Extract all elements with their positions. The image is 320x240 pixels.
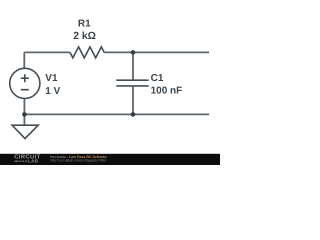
svg-text:http://circuitlab.com/c/dqsgds: http://circuitlab.com/c/dqsgdsx74bn <box>50 158 106 162</box>
svg-text:C1: C1 <box>151 73 164 84</box>
svg-text:2 kΩ: 2 kΩ <box>73 31 96 42</box>
svg-text:1 V: 1 V <box>45 86 60 97</box>
svg-text:V1: V1 <box>45 73 58 84</box>
svg-text:100 nF: 100 nF <box>151 86 183 97</box>
svg-text:LAB: LAB <box>28 158 38 163</box>
svg-text:R1: R1 <box>78 19 91 30</box>
